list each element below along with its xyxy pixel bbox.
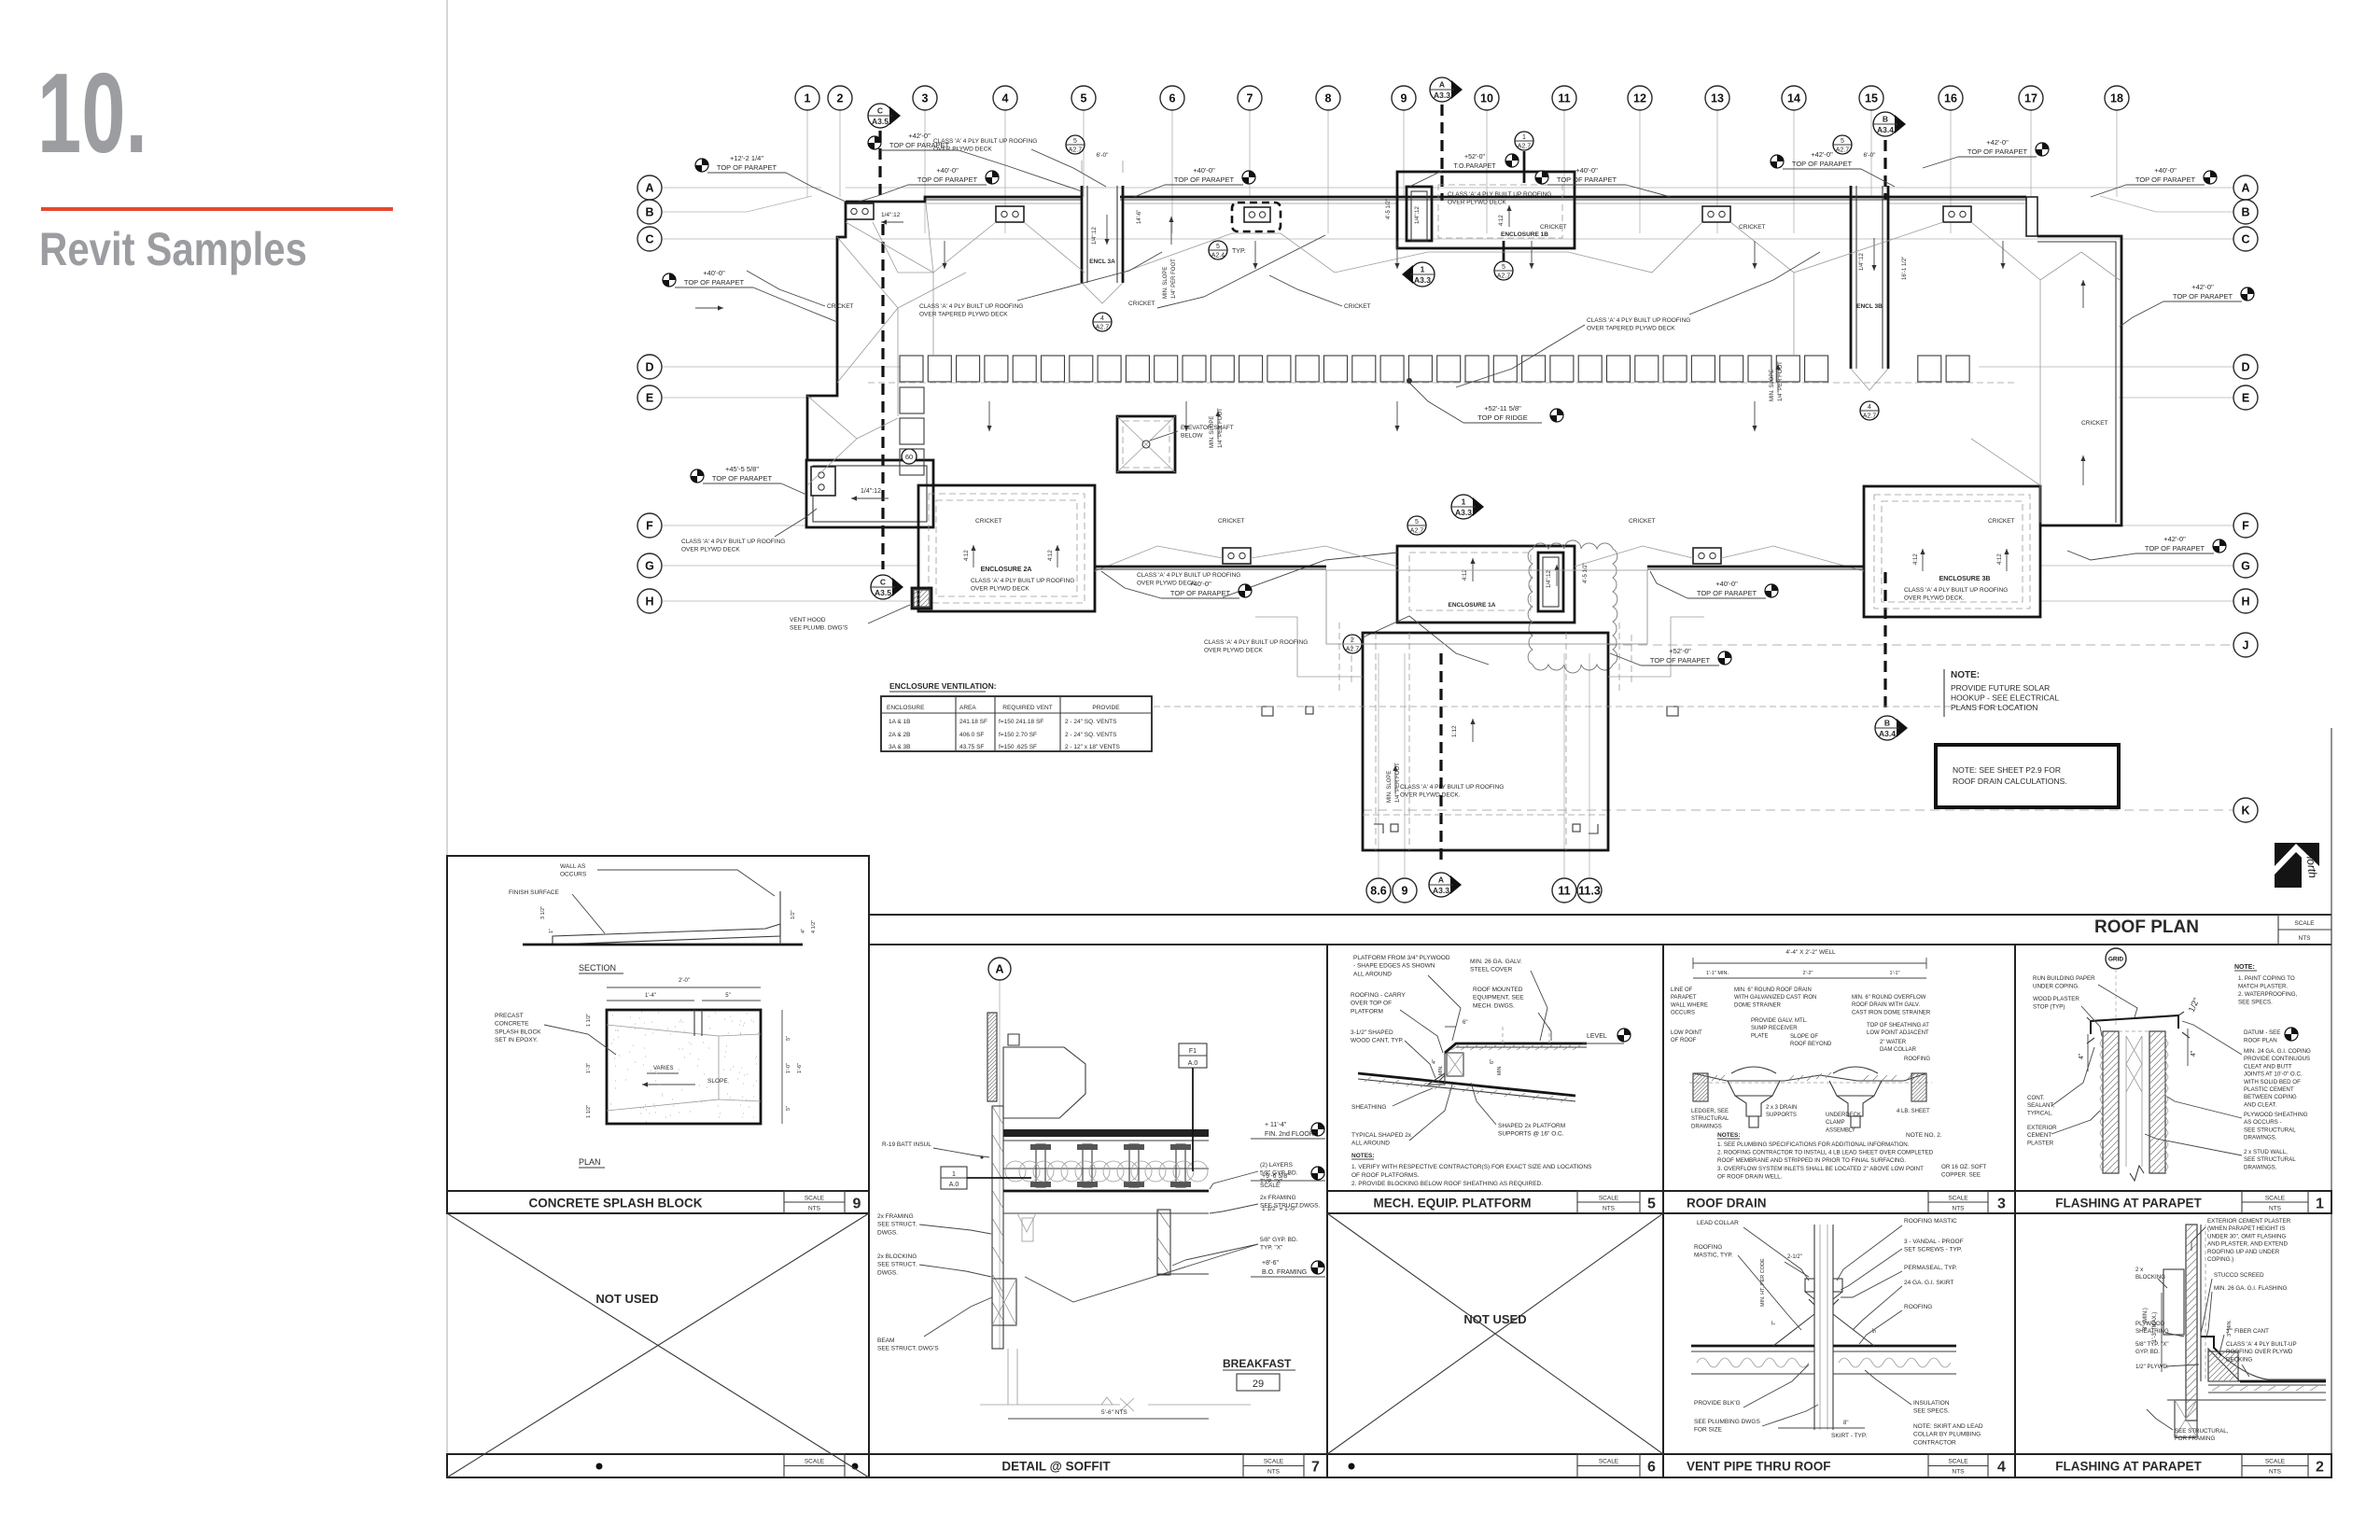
splash block PLAN drawing <box>607 1010 761 1124</box>
svg-text:OF ROOF: OF ROOF <box>1671 1038 1697 1043</box>
svg-text:CRICKET: CRICKET <box>1629 518 1656 525</box>
svg-text:WOOD PLASTER: WOOD PLASTER <box>2033 996 2079 1002</box>
svg-text:3: 3 <box>922 92 929 105</box>
svg-text:OCCURS: OCCURS <box>1671 1011 1695 1016</box>
svg-text:10: 10 <box>1480 92 1493 105</box>
svg-text:3: 3 <box>1997 1197 2006 1212</box>
column grid lines <box>806 110 808 197</box>
svg-text:3 1/2": 3 1/2" <box>540 906 546 919</box>
svg-text:ROOFING UP AND UNDER: ROOFING UP AND UNDER <box>2207 1249 2280 1255</box>
svg-text:CRICKET: CRICKET <box>2081 420 2108 427</box>
svg-text:A2.7: A2.7 <box>1836 147 1850 154</box>
elevator shaft below <box>1117 416 1175 472</box>
svg-text:11: 11 <box>1558 885 1570 898</box>
zigzag plaster edges <box>2100 1038 2103 1172</box>
svg-text:17: 17 <box>2024 92 2037 105</box>
svg-text:STEEL COVER: STEEL COVER <box>1470 967 1513 973</box>
svg-text:CONT.: CONT. <box>2027 1095 2045 1101</box>
svg-text:4:12: 4:12 <box>1913 553 1919 565</box>
svg-text:5: 5 <box>1647 1197 1656 1212</box>
svg-text:SEE SPECS.: SEE SPECS. <box>1913 1408 1950 1415</box>
svg-text:G: G <box>2241 560 2250 573</box>
bottom band outer lines <box>869 914 2331 916</box>
svg-text:TOP OF SHEATHING AT: TOP OF SHEATHING AT <box>1867 1023 1929 1029</box>
right mid vent dashed box <box>1232 203 1281 231</box>
svg-text:F: F <box>2242 520 2249 533</box>
svg-text:1/4":12: 1/4":12 <box>1415 206 1421 224</box>
svg-text:TOP OF PARAPET: TOP OF PARAPET <box>712 474 773 483</box>
svg-text:f=150 241.18 SF: f=150 241.18 SF <box>999 719 1043 725</box>
svg-text:A: A <box>1438 875 1444 885</box>
svg-text:MIN. 26 GA. G.I. FLASHING: MIN. 26 GA. G.I. FLASHING <box>2214 1285 2288 1292</box>
svg-text:CLASS 'A' 4 PLY BUILT-UP: CLASS 'A' 4 PLY BUILT-UP <box>2226 1341 2297 1348</box>
svg-text:2-1/2": 2-1/2" <box>1787 1254 1802 1260</box>
svg-text:ROOFING OVER PLYWD: ROOFING OVER PLYWD <box>2226 1349 2293 1355</box>
bottom grid bubbles <box>1378 653 1379 877</box>
svg-text:PARAPET: PARAPET <box>1671 995 1697 1001</box>
svg-text:SEE STRUCTURAL,: SEE STRUCTURAL, <box>2175 1428 2229 1435</box>
svg-text:2 - 24" SQ. VENTS: 2 - 24" SQ. VENTS <box>1065 719 1117 725</box>
soffit: wall hatched <box>987 1013 997 1101</box>
60 tag <box>902 449 917 464</box>
svg-text:ALL AROUND: ALL AROUND <box>1353 971 1392 977</box>
svg-text:7: 7 <box>1247 92 1253 105</box>
svg-text:6": 6" <box>1490 1059 1495 1064</box>
svg-text:OVER PLYWD DECK.: OVER PLYWD DECK. <box>1904 595 1965 602</box>
svg-text:ROOF DRAIN WITH GALV.: ROOF DRAIN WITH GALV. <box>1852 1002 1920 1008</box>
svg-text:CLASS 'A' 4 PLY BUILT UP ROOFI: CLASS 'A' 4 PLY BUILT UP ROOFING <box>1448 191 1551 198</box>
svg-text:FOR FRAMING: FOR FRAMING <box>2175 1435 2215 1442</box>
svg-text:DRAWINGS: DRAWINGS <box>1691 1124 1722 1129</box>
enclosure 1A wing dashed surround <box>1339 623 1351 691</box>
svg-text:G: G <box>645 560 654 573</box>
svg-text:TYPICAL SHAPED 2x: TYPICAL SHAPED 2x <box>1351 1132 1412 1139</box>
svg-text:ENCLOSURE 1B: ENCLOSURE 1B <box>1501 231 1548 238</box>
svg-text:BELOW: BELOW <box>1181 433 1203 440</box>
svg-text:1 1/2": 1 1/2" <box>586 1014 592 1027</box>
svg-text:SCALE: SCALE <box>1948 1196 1968 1202</box>
svg-text:NTS: NTS <box>808 1206 821 1212</box>
ENCLOSURE 1B <box>1397 172 1575 248</box>
svg-text:BETWEEN COPING: BETWEEN COPING <box>2244 1094 2297 1100</box>
svg-text:SCALE: SCALE <box>1948 1459 1968 1465</box>
svg-text:TOP OF PARAPET: TOP OF PARAPET <box>917 175 978 184</box>
svg-text:H: H <box>645 595 653 609</box>
svg-text:H: H <box>2241 595 2249 609</box>
svg-text:NOTES:: NOTES: <box>1351 1153 1375 1159</box>
svg-text:TOP OF PARAPET: TOP OF PARAPET <box>1170 589 1231 597</box>
svg-text:5: 5 <box>1073 138 1077 145</box>
svg-text:COPING.): COPING.) <box>2207 1256 2233 1263</box>
svg-text:4:12: 4:12 <box>964 550 970 561</box>
svg-text:1/2" PLYWD.: 1/2" PLYWD. <box>2135 1364 2169 1370</box>
svg-text:A: A <box>2241 182 2249 195</box>
svg-text:1/4":12: 1/4":12 <box>881 212 901 218</box>
svg-text:OR 16 OZ. SOFT: OR 16 OZ. SOFT <box>1941 1164 1986 1170</box>
svg-text:GRID: GRID <box>2108 956 2124 962</box>
svg-text:E: E <box>646 392 653 405</box>
svg-text:1/4":12: 1/4":12 <box>861 488 881 495</box>
west low roof enclosure box <box>806 460 933 527</box>
svg-text:4'-4" X 2'-2" WELL: 4'-4" X 2'-2" WELL <box>1785 949 1836 956</box>
svg-text:1/2": 1/2" <box>791 910 796 919</box>
svg-text:D: D <box>645 361 653 374</box>
svg-text:PLATE: PLATE <box>1751 1033 1769 1039</box>
svg-text:OVER PLYWD DECK: OVER PLYWD DECK <box>933 147 992 153</box>
svg-text:LEDGER, SEE: LEDGER, SEE <box>1691 1109 1729 1114</box>
svg-text:SHEATHING: SHEATHING <box>2135 1328 2169 1335</box>
svg-text:SUPPORTS @ 16" O.C.: SUPPORTS @ 16" O.C. <box>1498 1131 1564 1138</box>
svg-text:14'-6": 14'-6" <box>1137 210 1142 224</box>
svg-text:1'-3": 1'-3" <box>586 1063 592 1073</box>
top-right corner step <box>2026 197 2037 236</box>
svg-text:1 1/2" = 1'-0": 1 1/2" = 1'-0" <box>1262 1206 1297 1212</box>
svg-text:A3.5: A3.5 <box>875 588 891 597</box>
svg-text:C: C <box>880 578 886 587</box>
title: mech equip platform <box>1327 1191 1663 1213</box>
svg-text:E: E <box>2242 392 2249 405</box>
svg-text:STRUCTURAL: STRUCTURAL <box>1691 1116 1729 1122</box>
svg-text:A2.7: A2.7 <box>1069 147 1083 154</box>
svg-text:ASSEMBLY: ASSEMBLY <box>1826 1127 1855 1133</box>
svg-text:5: 5 <box>1502 264 1505 271</box>
svg-text:A2.7: A2.7 <box>1497 273 1511 280</box>
svg-text:11: 11 <box>1558 92 1570 105</box>
svg-text:DRAWINGS.: DRAWINGS. <box>2244 1164 2277 1170</box>
svg-text:TYP.: TYP. <box>1232 248 1246 255</box>
svg-text:1/4" PER FOOT: 1/4" PER FOOT <box>1171 259 1177 299</box>
svg-text:CRICKET: CRICKET <box>1218 518 1245 525</box>
svg-text:7": 7" <box>1771 1321 1777 1325</box>
svg-text:CLASS 'A' 4 PLY BUILT UP ROOFI: CLASS 'A' 4 PLY BUILT UP ROOFING <box>1400 784 1504 791</box>
svg-text:f=150 .625 SF: f=150 .625 SF <box>999 744 1037 750</box>
svg-text:2 - 24" SQ. VENTS: 2 - 24" SQ. VENTS <box>1065 732 1117 738</box>
G row heavy roof edges <box>1095 566 1326 568</box>
centre leaders G row <box>1223 553 1397 597</box>
NOT USED panel west <box>447 1213 869 1477</box>
svg-text:A.0: A.0 <box>1188 1060 1198 1067</box>
section cut C/A3.5 top <box>878 131 881 199</box>
svg-text:MIN. 26 GA. GALV.: MIN. 26 GA. GALV. <box>1470 959 1522 965</box>
svg-text:ROOF PLAN: ROOF PLAN <box>2094 917 2199 937</box>
side posts hatched <box>1693 1073 1708 1101</box>
svg-text:MIN. 24 GA. G.I. COPING: MIN. 24 GA. G.I. COPING <box>2244 1048 2311 1055</box>
svg-text:NTS: NTS <box>2299 935 2312 942</box>
building left edge <box>807 202 846 460</box>
roof line hatch ticks <box>1712 1072 1913 1081</box>
svg-text:1. SEE PLUMBING SPECIFICATIONS: 1. SEE PLUMBING SPECIFICATIONS FOR ADDIT… <box>1717 1141 1910 1148</box>
svg-text:+42'-0": +42'-0" <box>1811 150 1833 159</box>
svg-text:10.: 10. <box>37 49 147 176</box>
bottom titles <box>447 1454 869 1477</box>
svg-text:+42'-0": +42'-0" <box>908 132 931 140</box>
splash block SECTION drawing <box>553 924 780 945</box>
svg-text:STOP (TYP): STOP (TYP) <box>2033 1003 2065 1010</box>
svg-text:SUMP RECEIVER: SUMP RECEIVER <box>1751 1026 1798 1031</box>
svg-text:ROOF DRAIN CALCULATIONS.: ROOF DRAIN CALCULATIONS. <box>1953 777 2067 786</box>
svg-text:TOP OF PARAPET: TOP OF PARAPET <box>1792 160 1853 168</box>
svg-text:OVER TAPERED PLYWD DECK: OVER TAPERED PLYWD DECK <box>919 312 1008 318</box>
svg-text:+52'-0": +52'-0" <box>1464 154 1485 161</box>
svg-text:CONCRETE: CONCRETE <box>495 1021 529 1028</box>
svg-text:ROOFING: ROOFING <box>1694 1244 1722 1251</box>
svg-text:OF ROOF PLATFORMS.: OF ROOF PLATFORMS. <box>1351 1172 1420 1179</box>
svg-text:PROVIDE: PROVIDE <box>1092 705 1120 711</box>
roof band <box>1691 1345 1814 1348</box>
svg-text:F: F <box>646 520 653 533</box>
svg-text:1. PAINT COPING TO: 1. PAINT COPING TO <box>2238 975 2295 982</box>
svg-text:1/4":12: 1/4":12 <box>1859 253 1865 271</box>
svg-text:f=150 2.70 SF: f=150 2.70 SF <box>999 732 1037 738</box>
svg-text:RUN BUILDING PAPER: RUN BUILDING PAPER <box>2033 975 2095 982</box>
svg-text:DOME STRAINER: DOME STRAINER <box>1734 1002 1782 1008</box>
svg-text:2x BLOCKING: 2x BLOCKING <box>877 1253 917 1260</box>
svg-text:CLASS 'A' 4 PLY BUILT UP ROOFI: CLASS 'A' 4 PLY BUILT UP ROOFING <box>971 578 1074 584</box>
svg-text:NOT USED: NOT USED <box>1463 1312 1526 1326</box>
svg-text:4: 4 <box>1868 404 1871 411</box>
svg-text:4:12: 4:12 <box>1499 215 1505 226</box>
svg-text:2 x 3 DRAIN: 2 x 3 DRAIN <box>1766 1105 1797 1111</box>
svg-text:4 1/2": 4 1/2" <box>811 920 817 933</box>
svg-text:CRICKET: CRICKET <box>975 518 1002 525</box>
ENCL 3B enclosure tube <box>1850 186 1853 369</box>
svg-text:TOP OF PARAPET: TOP OF PARAPET <box>1650 656 1711 665</box>
svg-text:TYPICAL.: TYPICAL. <box>2027 1110 2053 1116</box>
svg-text:MIN.: MIN. <box>1497 1065 1503 1075</box>
svg-text:CRICKET: CRICKET <box>1128 301 1155 307</box>
svg-text:+40'-0": +40'-0" <box>1575 166 1598 175</box>
plan dims <box>607 987 761 988</box>
platform deck <box>1437 1053 1445 1083</box>
cant + roofing <box>2208 1349 2240 1381</box>
svg-text:NOTES:: NOTES: <box>1717 1132 1741 1139</box>
svg-text:WITH SOLID BED OF: WITH SOLID BED OF <box>2244 1079 2301 1085</box>
west wing cricket lines <box>846 222 996 273</box>
svg-text:+40'-0": +40'-0" <box>1193 166 1215 175</box>
splash block panel frame <box>447 856 869 1213</box>
svg-text:A: A <box>1439 80 1445 90</box>
svg-text:+40'-0": +40'-0" <box>1715 580 1738 588</box>
svg-text:TOP OF PARAPET: TOP OF PARAPET <box>1557 175 1617 184</box>
svg-text:5": 5" <box>786 1106 791 1111</box>
svg-text:TOP OF PARAPET: TOP OF PARAPET <box>684 278 745 287</box>
svg-text:DWGS.: DWGS. <box>877 1269 898 1276</box>
svg-text:INSULATION: INSULATION <box>1913 1400 1950 1407</box>
title: roof drain <box>1663 1191 2015 1213</box>
svg-text:SPLASH BLOCK: SPLASH BLOCK <box>495 1029 541 1035</box>
svg-text:+42'-0": +42'-0" <box>1986 138 2009 147</box>
ENCLOSURE 1A <box>1397 546 1575 623</box>
svg-text:PLATFORM FROM 3/4" PLYWOOD: PLATFORM FROM 3/4" PLYWOOD <box>1353 955 1450 961</box>
parapet1 grid bubble <box>2106 948 2126 969</box>
top of ridge dot <box>1407 378 1412 384</box>
svg-text:6: 6 <box>1169 92 1176 105</box>
svg-text:BLOCKING: BLOCKING <box>2135 1274 2165 1281</box>
svg-text:WALL AS: WALL AS <box>560 863 586 870</box>
break line bottom <box>2103 1172 2165 1174</box>
svg-text:NTS: NTS <box>1953 1469 1966 1476</box>
svg-text:+45'-5 5/8": +45'-5 5/8" <box>725 465 759 473</box>
svg-text:AREA: AREA <box>959 705 976 711</box>
svg-text:8: 8 <box>1325 92 1332 105</box>
svg-text:NOTE:: NOTE: <box>1951 670 1980 680</box>
svg-text:4: 4 <box>1100 315 1104 322</box>
cant + curb <box>1428 1073 1445 1085</box>
svg-text:CRICKET: CRICKET <box>1988 518 2015 525</box>
svg-text:5": 5" <box>725 993 730 999</box>
svg-text:OVER PLYWD DECK: OVER PLYWD DECK <box>971 586 1029 593</box>
svg-text:B: B <box>2241 206 2249 219</box>
parapet2 wall <box>2186 1225 2197 1421</box>
svg-text:2: 2 <box>837 92 844 105</box>
ENCLOSURE 2A <box>918 485 1095 611</box>
svg-text:5: 5 <box>1841 138 1844 145</box>
svg-text:2" WATER: 2" WATER <box>1880 1040 1907 1045</box>
svg-text:4: 4 <box>1002 92 1009 105</box>
svg-text:4'-5 1/2": 4'-5 1/2" <box>1583 563 1589 583</box>
NOT USED panel mid <box>1327 1213 1663 1454</box>
svg-text:3A & 3B: 3A & 3B <box>889 744 911 750</box>
svg-text:FOR SIZE: FOR SIZE <box>1694 1427 1723 1434</box>
svg-text:PRECAST: PRECAST <box>495 1013 524 1019</box>
svg-text:ENCL 3A: ENCL 3A <box>1089 259 1115 265</box>
svg-text:NTS: NTS <box>2269 1469 2282 1476</box>
row bubbles left <box>637 175 662 200</box>
soffit: beam <box>992 1279 1016 1325</box>
svg-text:BREAKFAST: BREAKFAST <box>1223 1357 1292 1370</box>
svg-text:VARIES: VARIES <box>653 1066 674 1071</box>
svg-text:9: 9 <box>1402 885 1408 898</box>
svg-text:4:12: 4:12 <box>1997 553 2003 565</box>
svg-text:C: C <box>877 106 883 116</box>
svg-text:NOTE: SEE SHEET P2.9 FOR: NOTE: SEE SHEET P2.9 FOR <box>1953 765 2061 775</box>
svg-text:TOP OF PARAPET: TOP OF PARAPET <box>1174 175 1235 184</box>
svg-text:SCALE: SCALE <box>1260 1183 1281 1189</box>
svg-text:OVER PLYWD DECK: OVER PLYWD DECK <box>681 547 740 553</box>
svg-text:AS OCCURS -: AS OCCURS - <box>2244 1119 2282 1126</box>
svg-text:DRAWINGS.: DRAWINGS. <box>2244 1135 2277 1141</box>
svg-text:24 GA. G.I. SKIRT: 24 GA. G.I. SKIRT <box>1904 1280 1953 1286</box>
svg-text:DATUM - SEE: DATUM - SEE <box>2244 1029 2280 1036</box>
svg-text:B: B <box>645 206 653 219</box>
grid bubbles 1-18 <box>795 86 819 110</box>
svg-text:NOTE NO. 2.: NOTE NO. 2. <box>1906 1132 1942 1139</box>
svg-text:ROOF MOUNTED: ROOF MOUNTED <box>1473 987 1523 993</box>
svg-text:MIN. SLOPE: MIN. SLOPE <box>1770 370 1775 401</box>
svg-text:PLASTER: PLASTER <box>2027 1140 2054 1146</box>
svg-text:WOOD CANT, TYP.: WOOD CANT, TYP. <box>1351 1038 1404 1044</box>
svg-text:1: 1 <box>2316 1197 2324 1212</box>
roof drain section <box>1689 1082 1932 1084</box>
svg-text:2'-2": 2'-2" <box>1803 971 1813 976</box>
svg-text:J: J <box>2243 639 2249 652</box>
base structure <box>2167 1399 2326 1401</box>
svg-text:FINISH SURFACE: FINISH SURFACE <box>509 889 559 896</box>
svg-text:AND PLASTER, AND EXTEND: AND PLASTER, AND EXTEND <box>2207 1241 2288 1248</box>
svg-text:18: 18 <box>2110 92 2123 105</box>
flashing step <box>2201 1337 2221 1355</box>
svg-text:HOOKUP - SEE ELECTRICAL: HOOKUP - SEE ELECTRICAL <box>1951 693 2059 703</box>
coping <box>2091 1015 2178 1034</box>
svg-text:A3.5: A3.5 <box>872 117 889 126</box>
svg-text:1: 1 <box>1462 497 1466 507</box>
svg-text:SCALE: SCALE <box>805 1459 825 1465</box>
svg-text:DWGS.: DWGS. <box>877 1229 898 1236</box>
svg-text:ROOFING MASTIC: ROOFING MASTIC <box>1904 1218 1957 1225</box>
svg-text:ROOF DRAIN: ROOF DRAIN <box>1687 1197 1767 1211</box>
svg-text:4": 4" <box>2191 1050 2197 1057</box>
svg-text:1'-0": 1'-0" <box>786 1063 791 1073</box>
svg-text:C: C <box>645 233 653 246</box>
svg-text:ROOFING: ROOFING <box>1904 1057 1930 1062</box>
svg-text:60: 60 <box>905 453 913 461</box>
svg-text:PLYWOOD SHEATHING: PLYWOOD SHEATHING <box>2244 1112 2308 1118</box>
panel dividers <box>868 856 870 1477</box>
svg-text:CLEAT AND BUTT: CLEAT AND BUTT <box>2244 1063 2292 1070</box>
svg-text:WALL WHERE: WALL WHERE <box>1671 1002 1708 1008</box>
studs X marks <box>2126 1036 2142 1092</box>
svg-text:SKIRT - TYP.: SKIRT - TYP. <box>1831 1433 1867 1439</box>
svg-text:TYP. "X": TYP. "X" <box>1260 1245 1283 1252</box>
soffit: floor assembly <box>1003 1129 1209 1137</box>
svg-text:TOP OF PARAPET: TOP OF PARAPET <box>2173 292 2233 301</box>
svg-text:K: K <box>2241 805 2249 818</box>
svg-text:5'-6" NTS: 5'-6" NTS <box>1101 1409 1127 1416</box>
svg-text:MIN.: MIN. <box>1438 1065 1444 1075</box>
svg-text:STUCCO SCREED: STUCCO SCREED <box>2214 1272 2264 1279</box>
svg-text:1: 1 <box>952 1171 956 1178</box>
svg-text:MIN. SLOPE: MIN. SLOPE <box>1387 771 1393 803</box>
sheet left border <box>446 0 448 1477</box>
column of squares below D at west <box>900 387 924 413</box>
svg-text:TOP OF RIDGE: TOP OF RIDGE <box>1477 413 1527 422</box>
section cut B/A3.4 bottom <box>1883 572 1886 709</box>
svg-text:CLAMP: CLAMP <box>1826 1120 1845 1126</box>
equipment dashed box <box>1502 1027 1504 1043</box>
svg-text:SCALE: SCALE <box>1599 1196 1619 1202</box>
svg-text:ROOF MEMBRANE AND STRIPPED IN: ROOF MEMBRANE AND STRIPPED IN PRIOR TO F… <box>1717 1157 1906 1164</box>
svg-text:SEE STRUCT. DWG'S: SEE STRUCT. DWG'S <box>877 1346 939 1352</box>
svg-text:GYP. BD.: GYP. BD. <box>2135 1349 2160 1355</box>
svg-text:+52'-0": +52'-0" <box>1669 647 1691 655</box>
north arrow <box>2275 843 2319 888</box>
parapet1 wall <box>2103 1031 2119 1173</box>
svg-text:PLAN: PLAN <box>579 1157 601 1167</box>
svg-text:MIN. SLOPE: MIN. SLOPE <box>1163 267 1169 299</box>
svg-text:SCALE: SCALE <box>805 1196 825 1202</box>
svg-text:A.0: A.0 <box>949 1182 959 1188</box>
svg-text:A: A <box>645 182 653 195</box>
svg-text:+52'-11 5/8": +52'-11 5/8" <box>1484 404 1521 413</box>
svg-text:CRICKET: CRICKET <box>827 303 854 310</box>
svg-text:SEE SPECS.: SEE SPECS. <box>2238 1000 2273 1006</box>
svg-text:16: 16 <box>1944 92 1957 105</box>
svg-text:TOP OF PARAPET: TOP OF PARAPET <box>2145 544 2205 553</box>
svg-text:4": 4" <box>801 929 806 933</box>
svg-text:2 x STUD WALL,: 2 x STUD WALL, <box>2244 1149 2288 1155</box>
svg-text:LINE OF: LINE OF <box>1671 987 1693 993</box>
svg-text:CRICKET: CRICKET <box>1540 224 1567 231</box>
svg-text:ENCL 3B: ENCL 3B <box>1856 303 1883 310</box>
ENCL 3A cricket + callout <box>1093 313 1112 331</box>
row grid lines <box>662 187 821 189</box>
sheet right border <box>2331 728 2332 1477</box>
svg-text:406.0 SF: 406.0 SF <box>959 732 984 738</box>
svg-text:VENT HOOD: VENT HOOD <box>790 617 826 623</box>
svg-text:CAST IRON DOME STRAINER: CAST IRON DOME STRAINER <box>1852 1010 1931 1015</box>
soffit: grid A bubble <box>999 980 1001 1349</box>
svg-text:B: B <box>1884 719 1890 728</box>
